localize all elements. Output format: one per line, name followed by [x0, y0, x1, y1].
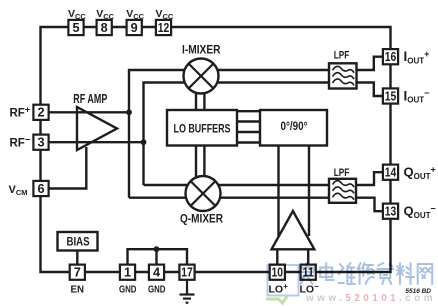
svg-text:IOUT+: IOUT+ [404, 49, 430, 66]
svg-text:VCC: VCC [156, 8, 174, 21]
svg-text:2: 2 [37, 106, 44, 120]
svg-text:www.520101.com: www.520101.com [305, 293, 436, 304]
svg-text:0°/90°: 0°/90° [281, 119, 308, 133]
svg-text:GND: GND [148, 283, 166, 295]
svg-text:LO BUFFERS: LO BUFFERS [174, 123, 231, 136]
svg-text:QOUT−: QOUT− [404, 204, 436, 221]
svg-text:VCC: VCC [96, 8, 114, 21]
svg-text:9: 9 [131, 21, 138, 35]
svg-text:Q-MIXER: Q-MIXER [180, 212, 223, 226]
svg-text:4: 4 [153, 266, 160, 280]
svg-text:7: 7 [74, 266, 81, 280]
svg-text:QOUT+: QOUT+ [404, 165, 436, 182]
svg-text:IOUT−: IOUT− [404, 88, 430, 105]
svg-text:8: 8 [101, 21, 108, 35]
svg-text:EN: EN [71, 283, 85, 295]
svg-text:GND: GND [119, 283, 137, 295]
svg-text:RF AMP: RF AMP [73, 92, 107, 106]
svg-text:5: 5 [72, 21, 79, 35]
svg-text:I-MIXER: I-MIXER [182, 42, 221, 56]
svg-text:13: 13 [385, 205, 397, 219]
svg-text:VCM: VCM [9, 184, 28, 197]
svg-text:6: 6 [37, 182, 44, 196]
svg-text:10: 10 [272, 266, 284, 280]
svg-text:RF−: RF− [10, 135, 31, 150]
svg-text:LO+: LO+ [269, 282, 289, 296]
svg-text:LPF: LPF [334, 50, 350, 62]
svg-text:3: 3 [37, 136, 44, 150]
svg-text:1: 1 [124, 266, 131, 280]
svg-text:LPF: LPF [334, 167, 350, 179]
svg-text:16: 16 [385, 50, 397, 64]
svg-text:VCC: VCC [68, 8, 86, 21]
svg-text:VCC: VCC [126, 8, 144, 21]
svg-text:12: 12 [158, 21, 170, 35]
svg-text:14: 14 [385, 166, 397, 180]
svg-text:17: 17 [181, 266, 193, 280]
svg-text:RF+: RF+ [10, 105, 31, 120]
svg-text:15: 15 [385, 89, 397, 103]
svg-text:BIAS: BIAS [67, 235, 90, 249]
